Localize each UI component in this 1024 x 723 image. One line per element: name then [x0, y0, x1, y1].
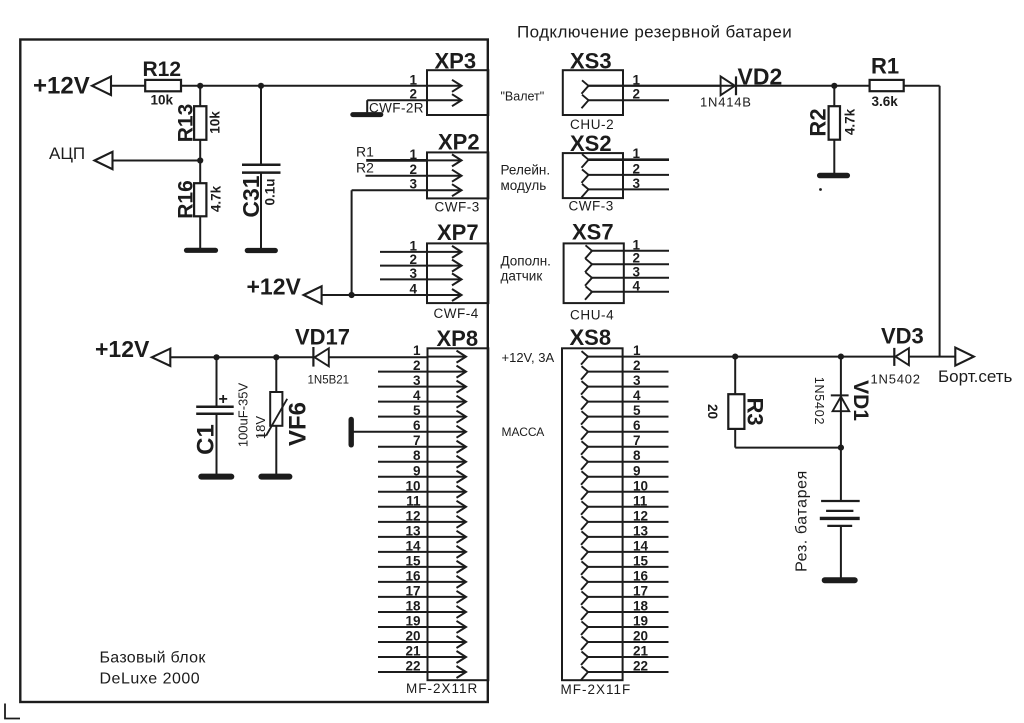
XS8 pin 18 — [581, 606, 588, 620]
wire XP8 pin 15 stub — [378, 566, 428, 568]
svg-text:+12V: +12V — [33, 73, 90, 100]
XS8 pin 5 — [581, 411, 588, 425]
wire XS2 pin 2 stub — [589, 174, 670, 176]
wire XS8 pin 20 stub — [588, 641, 669, 643]
wire XP8 pin 3 stub — [378, 386, 428, 388]
XP7 pin 1 — [427, 251, 462, 253]
wire R12 node down to R13 — [199, 86, 201, 106]
wire XS3 pin 1 to VD2 — [589, 85, 721, 87]
svg-text:1: 1 — [409, 72, 417, 87]
stub bar at XP3 pin 2 — [353, 112, 381, 117]
XP8 pin 3 — [428, 386, 467, 388]
wire XS8 pin 4 stub — [588, 401, 669, 403]
svg-text:CWF-4: CWF-4 — [434, 306, 479, 321]
svg-text:R2: R2 — [806, 108, 831, 136]
junction at divider mid — [197, 157, 203, 163]
svg-text:20: 20 — [705, 404, 720, 419]
wire XS7 pin 3 stub — [592, 277, 669, 279]
wire XP2 pin 3 down to +12V node — [352, 189, 427, 191]
junction at R2 top — [831, 83, 837, 89]
XS2 pin 1 — [582, 154, 589, 168]
ground under R2 — [820, 173, 848, 179]
svg-text:CWF-3: CWF-3 — [435, 200, 480, 215]
svg-text:R13: R13 — [174, 104, 197, 143]
wire XP8 pin 10 stub — [378, 491, 428, 493]
ground under C1 — [201, 474, 231, 480]
svg-text:VF6: VF6 — [284, 402, 311, 446]
ground under R16 — [187, 248, 216, 253]
varistor VF6 — [270, 392, 282, 426]
XS8 pin 1 — [581, 351, 588, 365]
wire XS8 pin 5 stub — [588, 416, 669, 418]
wire XP8 pin 8 stub — [378, 461, 428, 463]
XS8 pin 7 — [581, 441, 588, 455]
junction at C1 top — [213, 354, 219, 360]
capacitor C31 — [242, 164, 281, 167]
XP8 pin 11 — [428, 506, 467, 508]
wire XP8 pin 21 stub — [378, 656, 428, 658]
resistor R1 — [870, 80, 904, 91]
wire battery to ground — [840, 526, 842, 578]
XP8 pin 4 — [428, 401, 467, 403]
svg-text:Борт.сеть: Борт.сеть — [938, 367, 1012, 386]
stub bar at XP8 pin 6 — [349, 420, 354, 445]
wire XS2 pin 3 stub — [589, 188, 670, 190]
junction at VD1 branch — [838, 354, 844, 360]
junction at C31 top — [258, 83, 264, 89]
svg-text:1N5402: 1N5402 — [871, 372, 921, 387]
wire XS8 pin 2 stub — [588, 371, 669, 373]
base unit boundary box (Базовый блок) — [20, 40, 488, 703]
wire XS8 pin 13 stub — [588, 536, 669, 538]
svg-text:R16: R16 — [174, 180, 197, 219]
wire top rail down to C31 — [260, 86, 262, 165]
svg-text:Подключение резервной батареи: Подключение резервной батареи — [517, 23, 792, 42]
svg-text:CHU-2: CHU-2 — [570, 117, 614, 132]
wire XP3 pin 2 stub — [367, 99, 427, 101]
XS2 pin 2 — [582, 169, 589, 183]
diode VD1 (battery feed) — [840, 357, 842, 448]
wire XP8 pin 17 stub — [378, 596, 428, 598]
XP8 pin 2 — [428, 371, 467, 373]
XP8 pin 16 — [428, 581, 467, 583]
XS8 pin 17 — [581, 591, 588, 605]
wire XS8 pin 3 stub — [588, 386, 669, 388]
XP8 pin 18 — [428, 611, 467, 613]
svg-text:+12V, 3A: +12V, 3A — [502, 350, 555, 365]
wire XP8 pin 16 stub — [378, 581, 428, 583]
wire VF6 to ground — [275, 426, 277, 476]
junction +12V branch — [349, 292, 355, 298]
XS3 pin 1 — [582, 80, 589, 94]
XS8 pin 9 — [581, 471, 588, 485]
wire XS8 pin 15 stub — [588, 566, 669, 568]
wire XP8 pin 6 stub — [353, 431, 428, 433]
svg-text:R12: R12 — [143, 58, 182, 81]
wire XS8 pin 1 main net — [588, 356, 894, 358]
svg-text:VD2: VD2 — [738, 64, 783, 90]
svg-text:1N414B: 1N414B — [700, 95, 752, 110]
svg-text:MF-2X11F: MF-2X11F — [561, 682, 632, 697]
svg-text:R1: R1 — [356, 143, 374, 159]
XP2 pin 1 — [427, 159, 462, 161]
svg-text:100uF-35V: 100uF-35V — [236, 383, 251, 448]
wire XP8 pin 9 stub — [378, 476, 428, 478]
wire +12V rail to VD17 — [170, 356, 313, 358]
XS7 pin 2 — [585, 259, 592, 273]
node Борт.сеть (board net) — [955, 348, 974, 366]
XP8 pin 12 — [428, 521, 467, 523]
wire XP8 pin 22 stub — [378, 671, 428, 673]
XP8 pin 22 — [428, 671, 467, 673]
wire XS2 pin 1 stub — [589, 158, 670, 161]
svg-text:CHU-4: CHU-4 — [570, 308, 614, 323]
wire XS8 pin 11 stub — [588, 506, 669, 508]
wire XS8 pin 10 stub — [588, 491, 669, 493]
XS8 pin 4 — [581, 396, 588, 410]
wire XP8 pin 20 stub — [378, 641, 428, 643]
wire C1 to ground — [216, 414, 218, 476]
XP8 pin 5 — [428, 416, 467, 418]
wire XP7 pin 2 stub — [380, 265, 427, 267]
wire C31 to ground — [260, 173, 262, 250]
ground under C31 — [247, 248, 275, 253]
ground under VF6 — [261, 474, 289, 480]
junction at R3 branch — [732, 354, 738, 360]
XS8 pin 19 — [581, 621, 588, 635]
svg-text:XS7: XS7 — [572, 220, 614, 245]
wire R1 to right rail corner — [904, 85, 940, 87]
XS8 pin 3 — [581, 381, 588, 395]
wire XS8 pin 7 stub — [588, 446, 669, 448]
XP7 pin 3 — [427, 278, 462, 280]
svg-text:4.7k: 4.7k — [843, 108, 858, 135]
wire R3 bottom to battery node — [734, 429, 736, 448]
XP8 pin 21 — [428, 656, 467, 658]
XP8 pin 6 — [428, 431, 467, 433]
XP2 pin 2 — [427, 175, 462, 177]
XS7 pin 3 — [585, 272, 592, 286]
svg-text:VD3: VD3 — [881, 324, 924, 349]
XP2 pin 3 — [427, 189, 462, 191]
XS8 pin 22 — [581, 667, 588, 681]
XS3 pin 2 — [582, 95, 589, 109]
wire XP8 pin 5 stub — [378, 416, 428, 418]
junction at R13 top — [197, 83, 203, 89]
svg-text:XS8: XS8 — [570, 325, 612, 350]
XS8 pin 13 — [581, 531, 588, 545]
wire XP8 pin 4 stub — [378, 401, 428, 403]
wire XS8 pin 19 stub — [588, 626, 669, 628]
wire XS8 pin 14 stub — [588, 551, 669, 553]
wire R2 to XP2 pin 2 — [366, 175, 428, 177]
svg-text:R2: R2 — [356, 159, 374, 175]
svg-text:XP2: XP2 — [438, 130, 480, 155]
svg-text:4.7k: 4.7k — [209, 185, 224, 212]
XS8 pin 10 — [581, 486, 588, 500]
wire XP7 pin 1 stub — [380, 251, 427, 253]
svg-text:MF-2X11R: MF-2X11R — [406, 681, 478, 696]
wire VD17 to XP8 pin 1 — [329, 356, 427, 358]
wire XP7 pin 3 stub — [380, 278, 427, 280]
wire XP8 pin 2 stub — [378, 371, 428, 373]
XS8 pin 16 — [581, 576, 588, 590]
wire +12V rail to XP3 pin 1 — [111, 85, 427, 87]
XP3 pin 2 — [427, 99, 462, 101]
wire XS8 pin 6 stub — [588, 431, 669, 433]
XP8 pin 7 — [428, 446, 467, 448]
XP8 pin 13 — [428, 536, 467, 538]
XP8 pin 1 — [428, 356, 467, 358]
svg-text:Базовый блок: Базовый блок — [100, 650, 207, 667]
svg-text:модуль: модуль — [501, 178, 547, 193]
svg-text:XP7: XP7 — [437, 220, 479, 245]
svg-text:R3: R3 — [743, 397, 768, 425]
XS8 pin 15 — [581, 561, 588, 575]
svg-text:Дополн.: Дополн. — [501, 254, 551, 269]
XP8 pin 15 — [428, 566, 467, 568]
XS8 pin 14 — [581, 546, 588, 560]
XP8 pin 10 — [428, 491, 467, 493]
XP8 pin 14 — [428, 551, 467, 553]
wire XP8 pin 12 stub — [378, 521, 428, 523]
resistor R13 — [194, 106, 206, 140]
wire XS8 pin 12 stub — [588, 521, 669, 523]
wire down to VF6 — [275, 357, 277, 392]
backup battery GB1 — [840, 448, 842, 501]
wire XS8 pin 18 stub — [588, 611, 669, 613]
svg-text:+12V: +12V — [247, 274, 302, 300]
svg-text:1N5B21: 1N5B21 — [308, 375, 350, 387]
wire down to C1 — [216, 357, 218, 406]
svg-text:C1: C1 — [192, 424, 219, 455]
svg-text:"Валет": "Валет" — [501, 89, 545, 103]
svg-text:датчик: датчик — [501, 269, 543, 284]
XP3 pin 1 — [427, 85, 462, 87]
wire divider to R16 — [199, 161, 201, 184]
resistor R3 — [728, 394, 744, 429]
wire XP8 pin 14 stub — [378, 551, 428, 553]
XS8 pin 21 — [581, 652, 588, 666]
wire right vertical rail — [939, 86, 941, 357]
svg-text:Релейн.: Релейн. — [501, 163, 551, 178]
svg-text:R1: R1 — [871, 54, 899, 79]
svg-text:+12V: +12V — [95, 336, 150, 362]
svg-text:DeLuxe 2000: DeLuxe 2000 — [100, 671, 201, 688]
diode VD2 — [721, 76, 735, 95]
wire XS8 pin 22 stub — [588, 671, 669, 673]
svg-text:0.1u: 0.1u — [263, 178, 278, 205]
svg-text:VD17: VD17 — [295, 325, 350, 350]
wire XS8 pin 8 stub — [588, 461, 669, 463]
XP8 pin 20 — [428, 641, 467, 643]
XP8 pin 8 — [428, 461, 467, 463]
wire R13 to ADC node — [199, 140, 201, 161]
wire XS3 pin1 / VD2 / R1 rail — [588, 85, 870, 87]
svg-text:1N5402: 1N5402 — [812, 377, 826, 426]
resistor R12 — [145, 80, 181, 91]
svg-text:VD1: VD1 — [849, 380, 872, 421]
junction at VF6 top — [273, 354, 279, 360]
junction at battery top — [838, 445, 844, 451]
wire XS3 pin 2 stub — [589, 99, 670, 101]
svg-text:CWF-2R: CWF-2R — [369, 101, 424, 116]
XS7 pin 1 — [585, 245, 592, 258]
svg-text:10k: 10k — [151, 93, 174, 108]
XS8 pin 12 — [581, 516, 588, 530]
svg-text:3.6k: 3.6k — [872, 94, 899, 109]
XP7 pin 4 — [427, 294, 462, 296]
wire XP8 pin 13 stub — [378, 536, 428, 538]
XS8 pin 6 — [581, 426, 588, 440]
wire XS8 pin 9 stub — [588, 476, 669, 478]
XP8 pin 9 — [428, 476, 467, 478]
svg-text:АЦП: АЦП — [49, 144, 85, 163]
resistor R2 — [829, 106, 840, 140]
svg-text:CWF-3: CWF-3 — [569, 199, 614, 214]
wire R1 to XP2 pin 1 — [366, 159, 427, 162]
wire XP8 pin 18 stub — [378, 611, 428, 613]
svg-text:МАССА: МАССА — [502, 425, 545, 439]
XS2 pin 3 — [582, 184, 589, 198]
wire XS8 pin 17 stub — [588, 596, 669, 598]
svg-text:Рез. батарея: Рез. батарея — [794, 470, 811, 572]
wire VD3 to board-net arrow — [909, 356, 956, 358]
XS7 pin 4 — [585, 286, 592, 300]
wire XS8 pin 21 stub — [588, 656, 669, 658]
ground under battery — [825, 577, 855, 583]
svg-text:+: + — [219, 391, 228, 408]
wire +12V to XP7 pin 4 — [322, 294, 427, 296]
XP8 pin 19 — [428, 626, 467, 628]
resistor R16 — [194, 183, 206, 216]
wire XS8 pin 16 stub — [588, 581, 669, 583]
diode VD3 — [893, 348, 895, 366]
diode VD17 — [312, 347, 314, 367]
XS8 pin 11 — [581, 501, 588, 515]
XP8 pin 17 — [428, 596, 467, 598]
XS8 pin 2 — [581, 366, 588, 380]
wire XP8 pin 7 stub — [378, 446, 428, 448]
svg-text:XP8: XP8 — [437, 326, 479, 351]
wire XS7 pin 2 stub — [592, 263, 669, 265]
wire XP8 pin 19 stub — [378, 626, 428, 628]
wire ADC arrow to divider — [113, 160, 201, 162]
svg-text:18V: 18V — [253, 416, 268, 439]
wire R2 to ground — [833, 140, 835, 173]
capacitor C1 (polarized) — [196, 406, 234, 409]
svg-text:10k: 10k — [208, 111, 223, 134]
wire XS7 pin 1 stub — [592, 250, 669, 252]
wire XP8 pin 11 stub — [378, 506, 428, 508]
XP7 pin 2 — [427, 265, 462, 267]
wire XS7 pin 4 stub — [592, 291, 669, 293]
XS8 pin 20 — [581, 636, 588, 650]
XS8 pin 8 — [581, 456, 588, 470]
wire R16 to ground — [199, 216, 201, 249]
stray dot mark — [819, 188, 822, 191]
svg-text:1: 1 — [413, 343, 421, 358]
wire R3 top stem — [734, 357, 736, 395]
wire R2 top stem — [833, 86, 835, 106]
